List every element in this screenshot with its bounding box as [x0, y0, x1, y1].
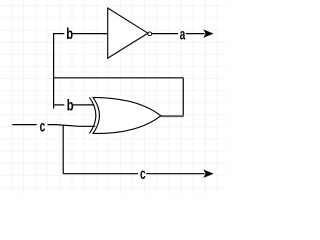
svg-text:b: b [67, 96, 74, 115]
svg-text:a: a [180, 25, 186, 43]
svg-text:c: c [40, 117, 46, 135]
svg-text:c: c [140, 164, 146, 182]
svg-text:b: b [66, 24, 73, 43]
